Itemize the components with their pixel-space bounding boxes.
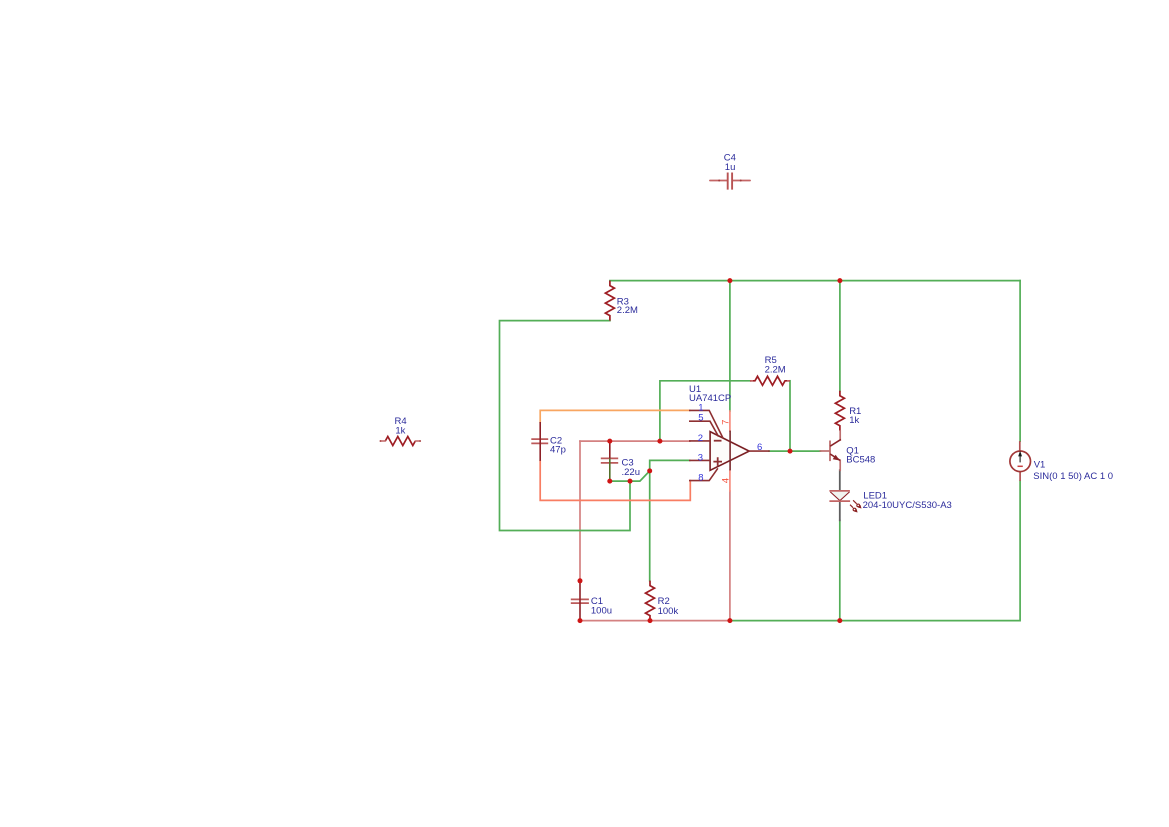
svg-text:4: 4 — [721, 478, 732, 483]
svg-text:BC548: BC548 — [846, 455, 875, 466]
svg-text:1u: 1u — [725, 162, 736, 173]
svg-text:1k: 1k — [395, 425, 405, 436]
svg-text:100u: 100u — [591, 605, 612, 616]
svg-text:6: 6 — [757, 442, 762, 453]
svg-text:204-10UYC/S530-A3: 204-10UYC/S530-A3 — [863, 500, 952, 511]
svg-text:1k: 1k — [849, 415, 859, 426]
svg-text:7: 7 — [721, 420, 732, 425]
svg-text:3: 3 — [698, 452, 703, 463]
svg-text:UA741CP: UA741CP — [689, 393, 731, 404]
svg-text:100k: 100k — [658, 606, 679, 617]
svg-text:2.2M: 2.2M — [765, 364, 786, 375]
svg-text:.22u: .22u — [622, 467, 641, 478]
svg-text:2: 2 — [698, 433, 703, 444]
svg-text:5: 5 — [698, 412, 703, 423]
svg-text:SIN(0 1 50) AC 1 0: SIN(0 1 50) AC 1 0 — [1033, 471, 1113, 482]
svg-text:47p: 47p — [550, 444, 566, 455]
svg-text:2.2M: 2.2M — [617, 305, 638, 316]
svg-text:8: 8 — [698, 473, 703, 484]
svg-text:V1: V1 — [1034, 460, 1046, 471]
